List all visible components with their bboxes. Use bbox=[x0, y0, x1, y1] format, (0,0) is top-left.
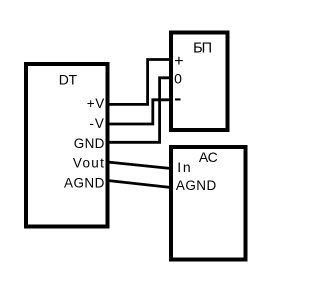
wire -V to БП - bbox=[108, 100, 172, 124]
block DT (sensor) bbox=[26, 64, 108, 227]
wire AGND to АС AGND bbox=[108, 181, 172, 188]
svg-text:GND: GND bbox=[74, 136, 105, 151]
svg-text:БП: БП bbox=[193, 41, 212, 57]
svg-text:Vout: Vout bbox=[73, 156, 105, 171]
svg-text:AGND: AGND bbox=[64, 175, 105, 190]
svg-text:0: 0 bbox=[174, 71, 182, 87]
svg-text:АС: АС bbox=[199, 149, 218, 165]
svg-text:DT: DT bbox=[59, 72, 78, 88]
block АС (acquisition system) bbox=[171, 147, 246, 260]
svg-text:-V: -V bbox=[89, 116, 105, 131]
wire GND to БП 0 bbox=[108, 78, 172, 143]
svg-text:+: + bbox=[174, 53, 183, 70]
svg-text:AGND: AGND bbox=[176, 178, 217, 193]
pin - label bbox=[175, 98, 181, 100]
svg-text:In: In bbox=[177, 159, 192, 175]
block БП (power supply) bbox=[171, 33, 228, 131]
wire +V to БП + bbox=[108, 60, 172, 105]
wire Vout to АС In bbox=[108, 162, 172, 169]
svg-text:+V: +V bbox=[87, 96, 105, 111]
